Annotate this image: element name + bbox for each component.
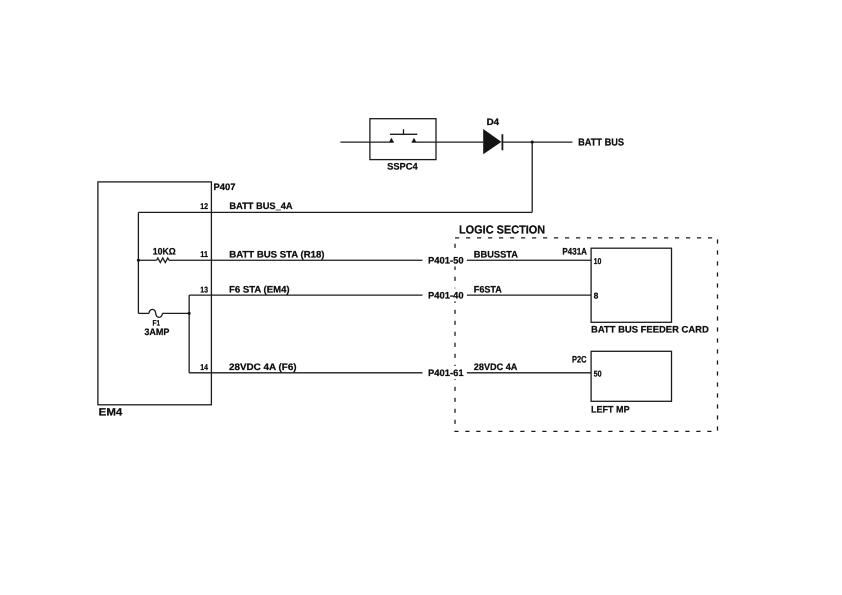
svg-text:50: 50	[594, 369, 602, 379]
svg-text:LOGIC SECTION: LOGIC SECTION	[459, 224, 545, 237]
svg-text:BATT BUS FEEDER CARD: BATT BUS FEEDER CARD	[591, 324, 709, 335]
svg-text:P407: P407	[214, 181, 236, 192]
svg-text:BATT BUS: BATT BUS	[578, 137, 624, 148]
svg-text:EM4: EM4	[99, 407, 123, 419]
svg-text:P2C: P2C	[572, 354, 587, 365]
svg-text:10KΩ: 10KΩ	[153, 245, 176, 256]
svg-text:11: 11	[200, 249, 208, 259]
svg-text:BBUSSTA: BBUSSTA	[474, 249, 518, 260]
svg-text:BATT BUS STA (R18): BATT BUS STA (R18)	[229, 248, 324, 259]
svg-text:D4: D4	[487, 116, 500, 127]
svg-text:28VDC 4A (F6): 28VDC 4A (F6)	[229, 361, 297, 372]
svg-text:10: 10	[594, 256, 602, 266]
svg-text:8: 8	[594, 291, 599, 301]
svg-text:P401-61: P401-61	[428, 367, 464, 378]
svg-text:BATT BUS_4A: BATT BUS_4A	[229, 200, 292, 211]
svg-text:P401-40: P401-40	[428, 290, 464, 301]
svg-text:F6STA: F6STA	[474, 283, 502, 294]
svg-text:LEFT MP: LEFT MP	[591, 404, 630, 415]
svg-text:13: 13	[200, 285, 208, 295]
svg-text:28VDC 4A: 28VDC 4A	[474, 361, 518, 372]
svg-text:SSPC4: SSPC4	[387, 161, 418, 172]
svg-text:12: 12	[200, 201, 208, 211]
svg-text:F6 STA (EM4): F6 STA (EM4)	[229, 283, 290, 294]
svg-text:P431A: P431A	[562, 245, 587, 256]
svg-text:P401-50: P401-50	[428, 255, 464, 266]
svg-text:14: 14	[200, 362, 208, 372]
svg-text:3AMP: 3AMP	[144, 326, 169, 337]
